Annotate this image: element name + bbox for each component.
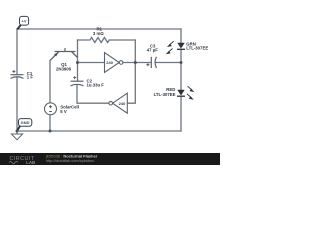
svg-text:GND: GND xyxy=(21,120,30,125)
svg-text:240: 240 xyxy=(119,101,126,106)
svg-text:47 µF: 47 µF xyxy=(147,47,158,52)
svg-text:1u.33u F: 1u.33u F xyxy=(87,83,105,88)
svg-text:240: 240 xyxy=(106,60,113,65)
svg-text:LTL-307EE: LTL-307EE xyxy=(154,92,176,97)
svg-text:1 F: 1 F xyxy=(27,75,34,80)
svg-text:3 mΩ: 3 mΩ xyxy=(93,31,104,36)
svg-text:http://circuitlab.com/cpbubnu: http://circuitlab.com/cpbubnu xyxy=(46,159,94,163)
svg-text:5 V: 5 V xyxy=(60,109,67,114)
svg-text:LAB: LAB xyxy=(26,160,35,165)
svg-text:2N3906: 2N3906 xyxy=(56,67,72,72)
svg-text:+V: +V xyxy=(22,18,27,23)
svg-text:RED: RED xyxy=(166,87,175,92)
svg-text:LTL-307EE: LTL-307EE xyxy=(186,45,208,50)
